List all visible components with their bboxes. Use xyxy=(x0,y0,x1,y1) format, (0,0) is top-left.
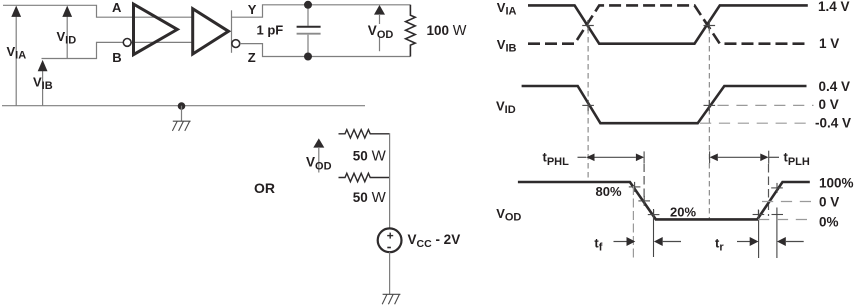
wire Z output xyxy=(240,44,411,57)
measurement arrow VOD xyxy=(374,5,385,51)
driver U2 xyxy=(193,9,229,54)
waveform VIB xyxy=(528,5,807,43)
svg-text:0 V: 0 V xyxy=(819,97,839,112)
svg-text:-0.4 V: -0.4 V xyxy=(815,116,851,131)
svg-text:tf: tf xyxy=(594,235,602,253)
svg-text:Z: Z xyxy=(248,50,256,65)
thin drop tr left xyxy=(758,210,760,258)
svg-text:20%: 20% xyxy=(670,205,696,220)
tick 80% rise xyxy=(771,183,783,193)
svg-text:VOD: VOD xyxy=(496,206,521,224)
svg-text:100%: 100% xyxy=(819,175,854,190)
inverting bubble output Z xyxy=(232,40,240,48)
tick 20% fall xyxy=(648,210,660,220)
thin drop 20% fall xyxy=(653,209,655,257)
dashed 0V line out xyxy=(762,201,814,203)
svg-text:tPHL: tPHL xyxy=(543,150,570,168)
ground rail wire xyxy=(2,105,365,107)
buffer U1 xyxy=(134,4,178,55)
tick VID rise xyxy=(704,100,716,111)
tick 80% fall xyxy=(629,182,641,192)
crossover tick 2 xyxy=(704,20,716,31)
wire load to source xyxy=(389,133,391,228)
ground symbol 2 xyxy=(382,294,400,304)
dashed drop tPHL 50% xyxy=(643,164,645,205)
source arrow VID xyxy=(62,6,72,59)
wire source to ground xyxy=(389,252,391,294)
dimension tr xyxy=(737,237,804,246)
svg-text:tPLH: tPLH xyxy=(784,150,810,168)
tick arm lower right rise xyxy=(772,214,784,216)
svg-text:80%: 80% xyxy=(596,184,622,199)
svg-text:VID: VID xyxy=(57,29,77,47)
dashed -0.4V line xyxy=(700,122,814,124)
svg-text:B: B xyxy=(112,50,121,65)
voltage source V1 xyxy=(378,228,402,252)
wire input A path xyxy=(3,5,134,17)
svg-text:VIB: VIB xyxy=(497,37,517,55)
junction dot Y xyxy=(304,1,312,9)
waveform VID xyxy=(522,86,807,123)
svg-text:50 W: 50 W xyxy=(353,189,387,206)
label VOD xyxy=(367,23,394,41)
svg-text:0 V: 0 V xyxy=(819,194,839,209)
svg-text:0.4 V: 0.4 V xyxy=(819,79,851,94)
tick VID fall xyxy=(582,100,594,111)
junction dot Z xyxy=(304,53,312,61)
dashed drop tPLH 50% xyxy=(768,164,770,216)
resistor R2 50 ohm xyxy=(339,130,390,138)
resistor R3 50 ohm xyxy=(339,173,390,181)
capacitor C1 xyxy=(297,5,321,57)
svg-text:VID: VID xyxy=(496,98,516,116)
dimension tPLH xyxy=(710,151,779,164)
ground symbol 1 xyxy=(172,121,190,131)
svg-text:1 pF: 1 pF xyxy=(257,23,284,38)
wire ground stub xyxy=(181,106,183,122)
svg-text:VIA: VIA xyxy=(497,0,517,18)
source arrow VIA xyxy=(11,6,21,106)
wire B to driver xyxy=(131,41,193,43)
crossover tick 1 xyxy=(582,20,594,31)
dashed 0% line xyxy=(758,219,814,221)
dashed vertical crossing 2 xyxy=(708,28,710,219)
dimension tPHL xyxy=(578,151,645,163)
waveform VOD xyxy=(518,182,810,219)
resistor R1 100 ohm xyxy=(406,5,416,57)
junction dot on rail xyxy=(178,102,186,110)
tick 20% rise xyxy=(753,210,765,220)
wire Y output xyxy=(232,5,411,17)
thin drop tr right xyxy=(776,208,778,259)
dashed vertical crossing 1 xyxy=(587,28,589,181)
svg-text:VCC - 2V: VCC - 2V xyxy=(408,232,461,250)
wire A to driver xyxy=(134,16,193,18)
tick 50% fall xyxy=(638,196,650,206)
waveform VIA xyxy=(528,5,808,43)
svg-text:OR: OR xyxy=(254,180,275,196)
grey dashed drop 80% xyxy=(632,186,634,258)
inverting bubble input B xyxy=(123,39,131,47)
svg-text:tr: tr xyxy=(715,235,724,253)
wire output stub xyxy=(231,10,233,53)
svg-text:A: A xyxy=(112,0,122,15)
measurement arrow VOD 2 xyxy=(313,138,324,172)
svg-text:100 W: 100 W xyxy=(427,23,467,39)
dimension tf xyxy=(614,237,682,246)
dashed 0V line xyxy=(718,104,814,106)
svg-text:Y: Y xyxy=(248,2,257,17)
svg-text:1 V: 1 V xyxy=(819,36,839,51)
svg-text:50 W: 50 W xyxy=(353,147,387,164)
wire input B path xyxy=(42,42,124,58)
svg-text:1.4 V: 1.4 V xyxy=(818,0,850,14)
svg-text:0%: 0% xyxy=(819,215,839,230)
source arrow VIB xyxy=(38,60,48,106)
